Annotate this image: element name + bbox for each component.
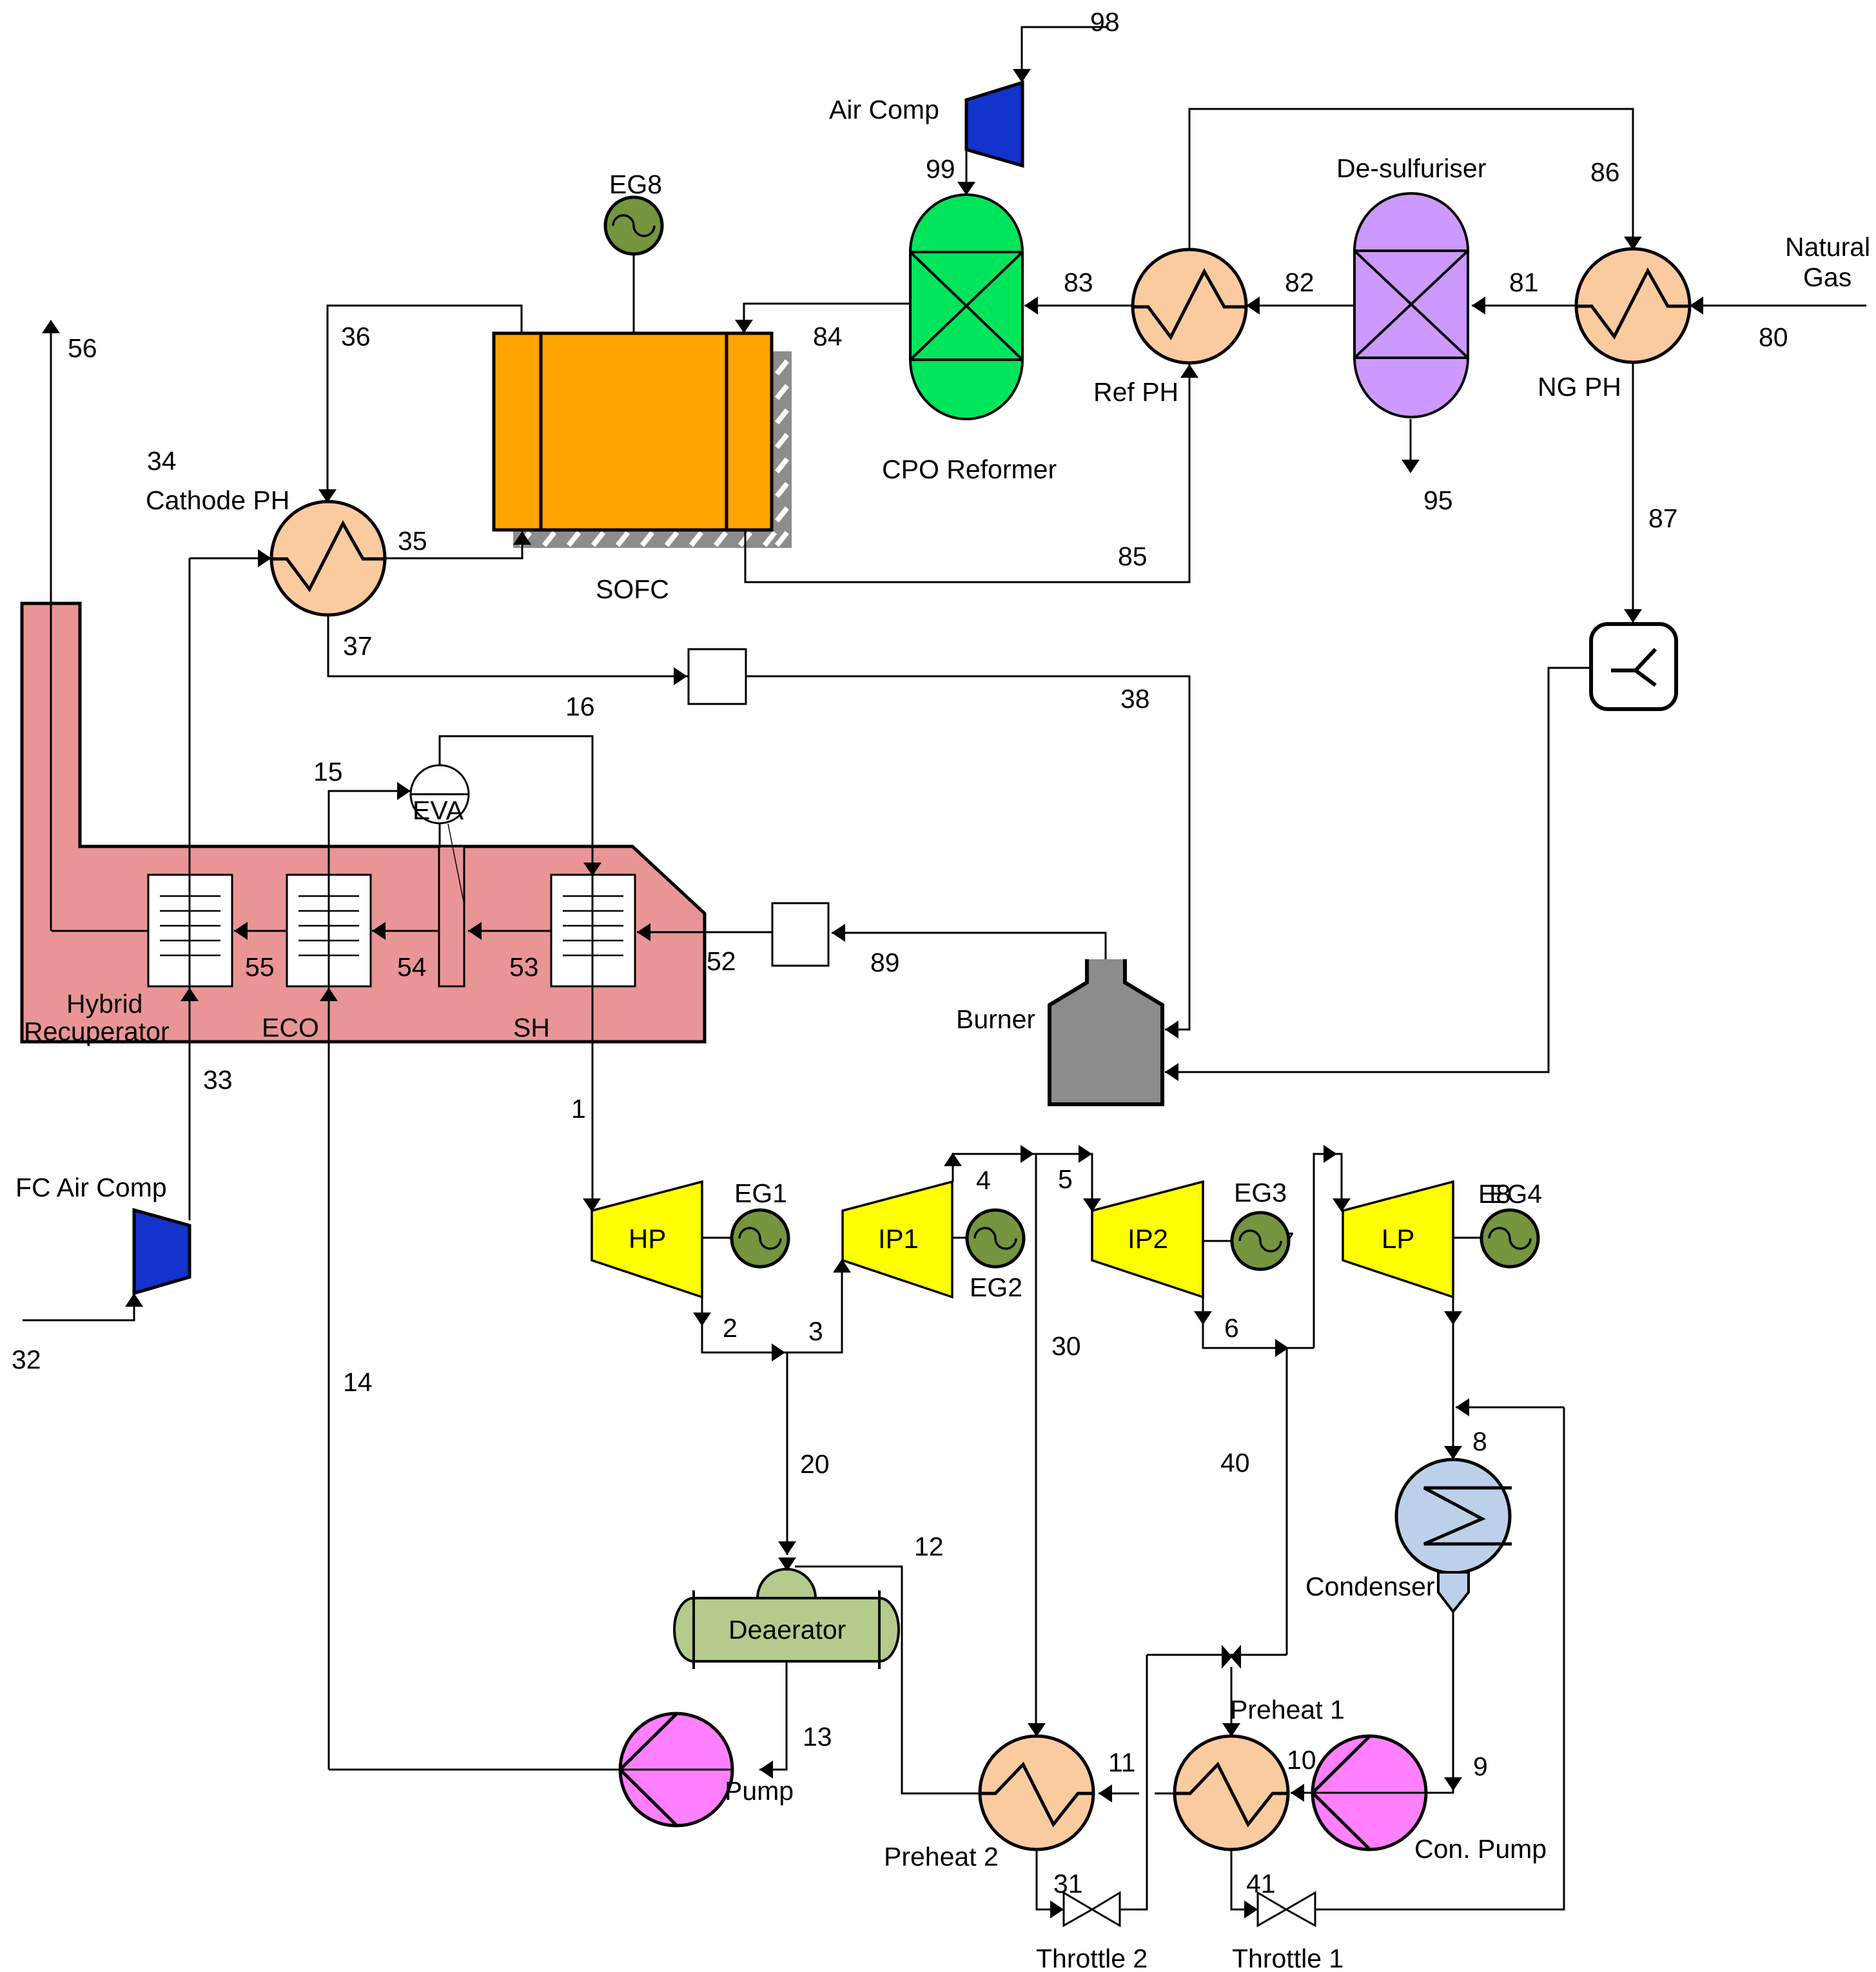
arrow 37 into junction box bbox=[674, 667, 687, 685]
svg-text:40: 40 bbox=[1220, 1448, 1250, 1478]
arrow 83 into CPO bbox=[1024, 297, 1038, 315]
wire 41 after Throttle 1 bbox=[1315, 1407, 1564, 1909]
svg-text:87: 87 bbox=[1648, 503, 1678, 533]
arrow 99 into CPO bbox=[957, 182, 975, 195]
svg-text:Gas: Gas bbox=[1803, 262, 1852, 292]
Cathode PH heat exchanger bbox=[271, 502, 385, 615]
Hybrid Recuperator duct bbox=[22, 603, 705, 1042]
SH coil bbox=[551, 875, 635, 986]
svg-text:35: 35 bbox=[398, 526, 427, 556]
Deaerator bbox=[674, 1569, 899, 1669]
svg-text:Air Comp: Air Comp bbox=[829, 95, 939, 124]
Throttle 1 valve bbox=[1258, 1893, 1315, 1926]
svg-text:10: 10 bbox=[1287, 1745, 1316, 1775]
SOFC inner divider left bbox=[540, 333, 543, 530]
svg-text:12: 12 bbox=[914, 1532, 944, 1561]
wire 87 NG PH to Y-strainer bbox=[1632, 362, 1634, 624]
Y-strainer box bbox=[1591, 624, 1676, 709]
arrow 15 into EVA bbox=[397, 782, 411, 800]
flue gas wire 53 segment bbox=[372, 930, 439, 932]
wire 35 Cathode PH to SOFC bbox=[385, 530, 522, 558]
svg-text:8: 8 bbox=[1472, 1427, 1487, 1456]
arrow 20 into Deaerator lower bbox=[778, 1557, 796, 1571]
arrow 11 into Preheat 2 bbox=[1099, 1784, 1112, 1802]
Condenser bbox=[1396, 1459, 1512, 1612]
generator EG1 bbox=[702, 1210, 788, 1267]
wire 84 CPO Reformer to SOFC bbox=[744, 304, 910, 333]
wire 41 return to condenser inlet bbox=[1456, 1407, 1564, 1409]
HP turbine bbox=[592, 1182, 702, 1297]
valve on Preheat 1 feed bbox=[1222, 1646, 1240, 1667]
svg-text:3: 3 bbox=[808, 1316, 823, 1346]
svg-text:Pump: Pump bbox=[725, 1776, 794, 1806]
svg-text:Natural: Natural bbox=[1785, 232, 1870, 262]
arrow 41 return joins 8 bbox=[1456, 1398, 1469, 1416]
svg-text:16: 16 bbox=[565, 692, 595, 721]
generator EG2 bbox=[952, 1210, 1024, 1267]
svg-text:85: 85 bbox=[1118, 542, 1148, 571]
wire 14 Pump to ECO bbox=[328, 986, 330, 1770]
arrow 86 into NG PH bbox=[1624, 237, 1642, 250]
arrow 82 into Ref PH bbox=[1246, 297, 1260, 315]
svg-text:32: 32 bbox=[12, 1345, 41, 1374]
svg-text:Preheat 2: Preheat 2 bbox=[884, 1842, 999, 1871]
svg-text:E8: E8 bbox=[1478, 1179, 1510, 1209]
wire Y-strainer to Burner bbox=[1165, 668, 1591, 1072]
generator EG3 bbox=[1203, 1213, 1289, 1269]
svg-text:EG2: EG2 bbox=[970, 1273, 1022, 1302]
arrow 4 corner bbox=[944, 1153, 962, 1166]
svg-text:98: 98 bbox=[1090, 7, 1120, 37]
svg-text:82: 82 bbox=[1285, 268, 1314, 297]
arrow into Preheat 1 top bbox=[1222, 1723, 1240, 1737]
LP turbine bbox=[1343, 1182, 1453, 1297]
arrow 38 into Burner bbox=[1165, 1020, 1178, 1039]
svg-text:Cathode PH: Cathode PH bbox=[146, 485, 289, 515]
svg-text:HP: HP bbox=[629, 1224, 666, 1254]
arrow 9 onto pump line bbox=[1444, 1777, 1462, 1791]
svg-text:99: 99 bbox=[926, 154, 955, 184]
svg-text:LP: LP bbox=[1382, 1224, 1414, 1254]
arrow 84 into SOFC bbox=[735, 320, 753, 333]
FC Air Comp compressor bbox=[134, 1210, 190, 1293]
wire 20 to Deaerator bbox=[787, 1352, 788, 1555]
wire 37 Cathode PH to junction box bbox=[328, 615, 689, 676]
wire 15 ECO to EVA bbox=[329, 791, 411, 875]
svg-text:Con. Pump: Con. Pump bbox=[1414, 1834, 1547, 1864]
wire 89 Burner to junction box bbox=[832, 933, 1106, 959]
svg-text:EG8: EG8 bbox=[609, 170, 662, 199]
svg-text:CPO Reformer: CPO Reformer bbox=[882, 454, 1057, 484]
svg-text:80: 80 bbox=[1759, 322, 1788, 352]
EVA downcomer duct bbox=[439, 846, 464, 986]
Burner bbox=[1050, 959, 1162, 1104]
Throttle 2 valve bbox=[1064, 1893, 1120, 1926]
wire 38 junction box to Burner bbox=[746, 676, 1189, 1030]
wire 33 coil internal bbox=[189, 875, 191, 986]
arrow 8 below LP bbox=[1444, 1311, 1462, 1325]
wire 34 into Cathode PH bbox=[190, 558, 271, 560]
wire 9 Condenser to Con. Pump bbox=[1426, 1612, 1453, 1793]
arrow 2 below HP bbox=[693, 1313, 711, 1326]
wire 40 valve feed bbox=[1147, 1654, 1287, 1656]
flue gas wire from junction box to SH bbox=[637, 932, 772, 933]
wire 2-3 HP to IP1 bbox=[702, 1260, 842, 1352]
wire 82 De-sulfuriser to Ref PH bbox=[1246, 305, 1354, 307]
svg-text:41: 41 bbox=[1246, 1869, 1276, 1899]
wire 12 Preheat 2 to Deaerator bbox=[795, 1567, 980, 1793]
wire 41 Preheat 1 drain bbox=[1231, 1850, 1258, 1909]
SOFC inner divider right bbox=[725, 333, 728, 530]
wire ECO coil internal bbox=[328, 875, 330, 986]
wire 31 Preheat 2 drain bbox=[1037, 1850, 1064, 1909]
arrow 52 into SH bbox=[637, 923, 650, 941]
wire 36 SOFC to Cathode PH bbox=[327, 306, 522, 502]
svg-text:IP1: IP1 bbox=[878, 1224, 919, 1254]
wire 7 to LP bbox=[1314, 1154, 1342, 1348]
junction box 37/38 bbox=[689, 649, 746, 704]
svg-text:1: 1 bbox=[571, 1094, 586, 1124]
svg-text:Ref PH: Ref PH bbox=[1093, 377, 1178, 407]
svg-text:Throttle 2: Throttle 2 bbox=[1036, 1944, 1148, 1972]
Preheat 1 heat exchanger bbox=[1175, 1736, 1288, 1850]
wire 80 Natural Gas to NG PH bbox=[1690, 305, 1866, 307]
wire 10 Con. Pump to Preheat 1 bbox=[1291, 1792, 1313, 1794]
arrow 4 at 30 junction bbox=[1021, 1145, 1034, 1163]
flue gas wire 54 segment bbox=[234, 930, 287, 932]
wire 16 EVA to SH bbox=[440, 736, 592, 875]
svg-text:54: 54 bbox=[397, 952, 427, 982]
arrow 8 into Condenser bbox=[1444, 1446, 1462, 1459]
arrow 3 junction bbox=[772, 1343, 785, 1362]
svg-text:Recuperator: Recuperator bbox=[24, 1017, 170, 1046]
svg-text:89: 89 bbox=[870, 948, 900, 977]
svg-text:55: 55 bbox=[245, 952, 275, 982]
arrow 3 into IP1 bbox=[833, 1259, 851, 1273]
svg-text:Deaerator: Deaerator bbox=[728, 1615, 846, 1645]
wire 81 NG PH to De-sulfuriser bbox=[1472, 305, 1576, 307]
wire 40 IP2 extraction bbox=[1286, 1348, 1288, 1655]
arrow 34 into Cathode PH left bbox=[258, 549, 271, 567]
svg-text:11: 11 bbox=[1108, 1748, 1136, 1777]
svg-text:95: 95 bbox=[1423, 485, 1453, 515]
ECO coil bbox=[287, 875, 371, 986]
EVA drum bbox=[411, 765, 469, 823]
svg-text:EG1: EG1 bbox=[734, 1178, 787, 1208]
arrow 41 into Throttle 1 bbox=[1244, 1900, 1258, 1918]
svg-text:86: 86 bbox=[1590, 157, 1620, 187]
wire 99 Air Comp to CPO Reformer bbox=[966, 150, 968, 195]
svg-text:13: 13 bbox=[803, 1722, 832, 1752]
svg-text:52: 52 bbox=[707, 946, 736, 976]
shadow of SOFC bbox=[513, 351, 792, 548]
arrow 1 into HP bbox=[583, 1198, 601, 1212]
svg-text:2: 2 bbox=[723, 1313, 738, 1343]
arrow 35 into SOFC bottom bbox=[513, 531, 531, 545]
arrow 32 into FC Air Comp bbox=[125, 1293, 143, 1307]
CPO Reformer vessel bbox=[910, 195, 1022, 419]
svg-text:Condenser: Condenser bbox=[1305, 1572, 1435, 1601]
arrow 10 into Preheat 1 bbox=[1291, 1784, 1304, 1802]
svg-text:6: 6 bbox=[1224, 1313, 1239, 1343]
wire 6 IP2 exhaust bbox=[1203, 1297, 1314, 1348]
svg-text:84: 84 bbox=[813, 322, 843, 351]
arrow 6 at 40 junction bbox=[1275, 1339, 1289, 1357]
wire 11 segment 2 bbox=[1099, 1793, 1139, 1795]
svg-text:34: 34 bbox=[147, 446, 177, 476]
wire 14 pump suction run bbox=[329, 1769, 620, 1771]
wire 30 to Preheat 2 bbox=[1035, 1154, 1037, 1736]
svg-text:4: 4 bbox=[976, 1166, 991, 1195]
EVA leader line bbox=[448, 824, 465, 908]
svg-text:9: 9 bbox=[1473, 1752, 1488, 1781]
wire 11 Preheat 1 to Preheat 2 (hop at riser) bbox=[1155, 1793, 1175, 1795]
arrow 16 into SH bbox=[583, 863, 601, 876]
svg-text:SOFC: SOFC bbox=[596, 574, 669, 604]
svg-text:ECO: ECO bbox=[262, 1013, 319, 1042]
generator EG4 bbox=[1453, 1210, 1538, 1267]
svg-text:53: 53 bbox=[509, 952, 539, 982]
wire 95 De-sulfuriser drain bbox=[1410, 419, 1412, 460]
flue gas wire 52 segment into SH bbox=[468, 930, 552, 932]
wire SH coil internal bbox=[592, 875, 594, 986]
svg-text:81: 81 bbox=[1509, 268, 1539, 297]
svg-text:IP2: IP2 bbox=[1128, 1224, 1168, 1254]
arrow 36 into Cathode PH bbox=[318, 489, 337, 503]
arrow 7 corner bbox=[1324, 1145, 1337, 1163]
svg-text:EG3: EG3 bbox=[1234, 1178, 1287, 1207]
svg-text:31: 31 bbox=[1053, 1869, 1083, 1899]
wire 85 SOFC to Ref PH bbox=[745, 363, 1189, 582]
arrow 53 into EVA duct bbox=[468, 922, 482, 940]
arrow 95 open end bbox=[1402, 460, 1420, 473]
svg-text:Burner: Burner bbox=[956, 1004, 1035, 1034]
arrow 54 into ECO bbox=[372, 922, 386, 940]
arrow 87 into Y-strainer bbox=[1624, 609, 1642, 623]
tube bank (recuperator coil) bbox=[148, 875, 232, 986]
NG PH heat exchanger bbox=[1576, 249, 1690, 362]
wire 1 SH to HP turbine bbox=[592, 986, 594, 1211]
svg-text:20: 20 bbox=[800, 1449, 830, 1479]
wire 13 Deaerator to Pump bbox=[759, 1661, 787, 1770]
arrow 81 into De-sulfuriser bbox=[1472, 297, 1485, 315]
arrow 5 corner bbox=[1079, 1145, 1092, 1163]
svg-text:SH: SH bbox=[513, 1013, 550, 1042]
arrow 7 into LP bbox=[1333, 1198, 1351, 1212]
De-sulfuriser vessel bbox=[1354, 193, 1468, 417]
wire 33 FC Air Comp to Cathode PH line bbox=[189, 558, 191, 1220]
svg-text:38: 38 bbox=[1120, 684, 1150, 714]
arrow 20 into Deaerator upper bbox=[778, 1541, 796, 1555]
arrow 13 into Pump bbox=[759, 1761, 773, 1779]
arrow 31 into Throttle 2 bbox=[1050, 1900, 1064, 1918]
Ref PH heat exchanger bbox=[1133, 249, 1246, 363]
svg-text:14: 14 bbox=[343, 1367, 373, 1397]
Air Comp compressor bbox=[966, 83, 1022, 166]
arrow 56 stack exit bbox=[42, 320, 60, 333]
svg-text:EVA: EVA bbox=[413, 796, 464, 825]
svg-text:56: 56 bbox=[68, 333, 97, 363]
wire 4-5 IP1 to IP2 bbox=[953, 1154, 1092, 1211]
Preheat 2 heat exchanger bbox=[980, 1736, 1093, 1850]
svg-text:FC Air Comp: FC Air Comp bbox=[15, 1173, 167, 1202]
svg-text:15: 15 bbox=[313, 757, 343, 786]
svg-text:NG PH: NG PH bbox=[1538, 372, 1621, 402]
arrow into Burner lower bbox=[1165, 1063, 1178, 1081]
wire 86 Ref PH to NG PH bbox=[1189, 109, 1633, 249]
arrow 89 into junction box bbox=[832, 924, 845, 942]
svg-text:37: 37 bbox=[343, 631, 373, 661]
svg-text:Hybrid: Hybrid bbox=[66, 989, 142, 1019]
wire 8 LP to Condenser bbox=[1452, 1297, 1454, 1459]
SOFC stack bbox=[494, 333, 772, 530]
wire 31 riser bbox=[1120, 1655, 1147, 1909]
svg-text:De-sulfuriser: De-sulfuriser bbox=[1336, 153, 1486, 183]
arrow 55 into coil bbox=[234, 922, 248, 940]
wire 98 to Air Comp bbox=[1022, 27, 1106, 83]
svg-text:5: 5 bbox=[1058, 1164, 1073, 1194]
flue gas wire 55 segment bbox=[52, 930, 148, 932]
svg-text:33: 33 bbox=[203, 1065, 233, 1095]
flue gas wire in chimney (56) bbox=[50, 322, 52, 931]
arrow 80 into NG PH bbox=[1690, 297, 1703, 315]
arrow 6 below IP2 bbox=[1194, 1311, 1212, 1325]
svg-text:36: 36 bbox=[341, 322, 371, 351]
svg-text:83: 83 bbox=[1064, 268, 1093, 297]
svg-text:Throttle 1: Throttle 1 bbox=[1232, 1944, 1343, 1972]
arrow 30 into Preheat 2 top bbox=[1028, 1723, 1046, 1737]
wire 32 inlet to FC Air Comp bbox=[23, 1293, 134, 1320]
wire valve to Preheat 1 bbox=[1231, 1667, 1233, 1736]
svg-text:Preheat 1: Preheat 1 bbox=[1230, 1695, 1345, 1724]
arrow 98 into Air Comp bbox=[1013, 69, 1031, 83]
wire 83 Ref PH to CPO Reformer bbox=[1024, 305, 1133, 307]
arrow 33 into coil bbox=[181, 988, 199, 1001]
IP2 turbine bbox=[1092, 1182, 1203, 1297]
arrow 5 into IP2 bbox=[1083, 1198, 1101, 1212]
wire EVA drum to downcomer duct bbox=[439, 823, 441, 848]
arrow 85 into Ref PH bbox=[1180, 364, 1198, 378]
Con. Pump bbox=[1313, 1736, 1426, 1850]
svg-text:30: 30 bbox=[1051, 1331, 1081, 1361]
generator EG8 bbox=[605, 197, 662, 333]
arrow 14 into ECO bbox=[320, 988, 338, 1001]
Pump bbox=[620, 1713, 732, 1826]
junction box 52/89 bbox=[772, 903, 828, 966]
IP1 turbine bbox=[843, 1182, 952, 1297]
